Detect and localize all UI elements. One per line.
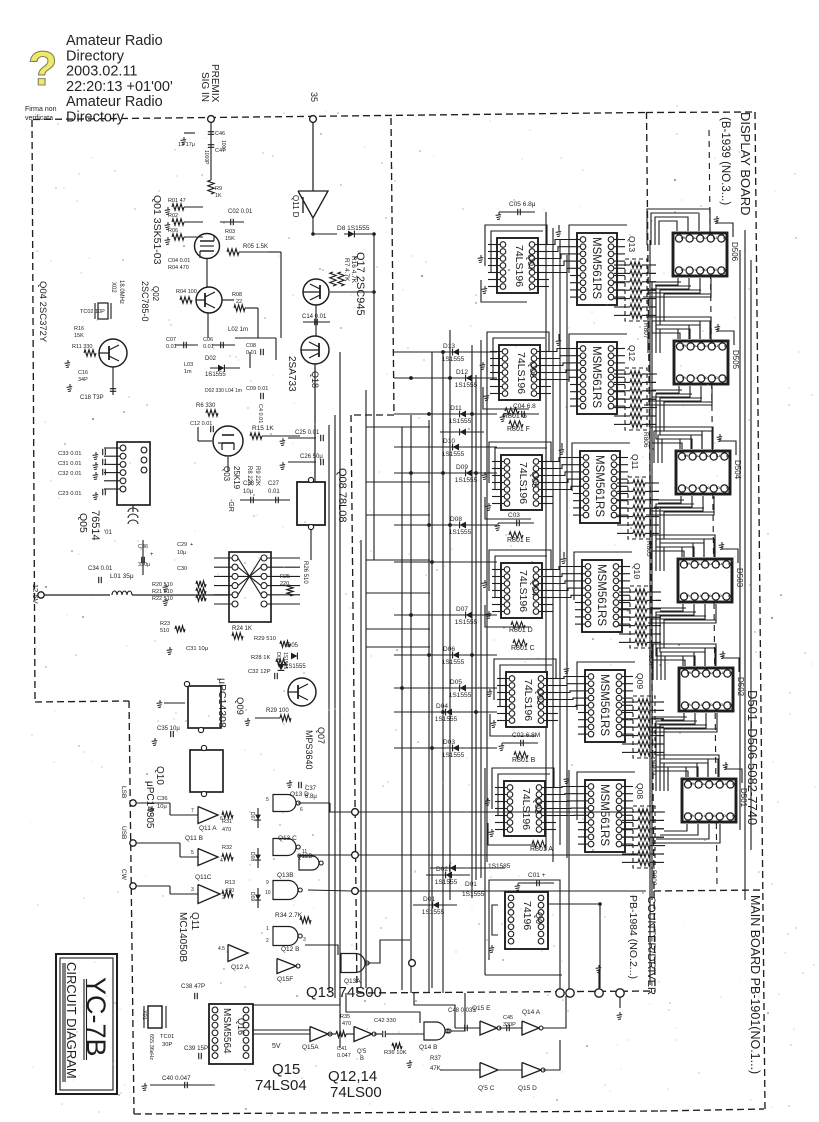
svg-text:7: 7 bbox=[691, 376, 697, 379]
svg-text:7: 7 bbox=[690, 268, 696, 271]
svg-text:Amateur Radio: Amateur Radio bbox=[66, 94, 163, 110]
svg-text:R801 E: R801 E bbox=[507, 537, 531, 544]
svg-text:2: 2 bbox=[717, 671, 723, 674]
svg-text:MSM561RS: MSM561RS bbox=[595, 564, 607, 626]
svg-text:10: 10 bbox=[723, 376, 729, 382]
svg-text:D07: D07 bbox=[249, 812, 255, 821]
svg-text:Q15 D: Q15 D bbox=[518, 1085, 537, 1092]
svg-text:C31 0.01: C31 0.01 bbox=[58, 461, 82, 467]
svg-text:R26 510: R26 510 bbox=[302, 561, 308, 584]
svg-text:verificata: verificata bbox=[25, 115, 53, 122]
svg-text:R23: R23 bbox=[160, 621, 170, 627]
svg-text:1S1555: 1S1555 bbox=[449, 418, 472, 425]
svg-text:510: 510 bbox=[160, 628, 169, 634]
svg-text:R7 4.7K: R7 4.7K bbox=[343, 258, 350, 282]
svg-text:10: 10 bbox=[725, 486, 731, 492]
svg-text:4.5: 4.5 bbox=[218, 946, 225, 952]
svg-text:MC14050B: MC14050B bbox=[177, 912, 188, 962]
svg-text:74LS04: 74LS04 bbox=[255, 1077, 307, 1094]
svg-text:-GR: -GR bbox=[227, 499, 234, 512]
svg-text:Q09: Q09 bbox=[234, 697, 245, 715]
svg-text:C01 +: C01 + bbox=[528, 872, 546, 879]
svg-text:D01: D01 bbox=[423, 896, 435, 903]
svg-text:C28: C28 bbox=[243, 481, 255, 487]
svg-text:22:20:13 +01'00': 22:20:13 +01'00' bbox=[66, 79, 173, 95]
svg-text:Firma non: Firma non bbox=[25, 106, 57, 113]
svg-text:1: 1 bbox=[727, 562, 733, 565]
svg-text:10: 10 bbox=[265, 890, 271, 896]
svg-text:R805: R805 bbox=[645, 541, 652, 557]
svg-text:D07: D07 bbox=[456, 606, 468, 613]
svg-text:0.01: 0.01 bbox=[246, 350, 257, 356]
svg-text:3: 3 bbox=[701, 344, 707, 347]
svg-text:R34 2.7K: R34 2.7K bbox=[275, 912, 303, 919]
svg-text:2: 2 bbox=[716, 562, 722, 565]
svg-text:3: 3 bbox=[303, 937, 306, 943]
svg-text:D06: D06 bbox=[275, 652, 281, 662]
svg-text:4: 4 bbox=[696, 671, 702, 674]
svg-text:1S1555: 1S1555 bbox=[455, 382, 478, 389]
svg-text:Q15A: Q15A bbox=[302, 1044, 319, 1051]
svg-text:R801 A: R801 A bbox=[530, 846, 553, 853]
svg-text:1S1555: 1S1555 bbox=[442, 356, 465, 363]
svg-text:3: 3 bbox=[191, 887, 194, 893]
svg-text:1: 1 bbox=[731, 782, 737, 785]
svg-text:Q08 78L08: Q08 78L08 bbox=[336, 468, 348, 522]
svg-text:74LS196: 74LS196 bbox=[517, 462, 529, 504]
svg-text:R9 22K: R9 22K bbox=[254, 466, 260, 486]
svg-text:R25: R25 bbox=[280, 574, 290, 580]
svg-text:5: 5 bbox=[680, 344, 686, 347]
svg-text:74LS196: 74LS196 bbox=[515, 352, 527, 394]
svg-text:6: 6 bbox=[679, 268, 685, 271]
svg-text:Q15 E: Q15 E bbox=[472, 1005, 491, 1012]
svg-text:470: 470 bbox=[342, 1021, 351, 1027]
svg-text:D06: D06 bbox=[443, 646, 455, 653]
svg-text:Amateur Radio: Amateur Radio bbox=[66, 33, 163, 49]
svg-text:C04 0.01: C04 0.01 bbox=[168, 258, 190, 264]
svg-text:R32: R32 bbox=[222, 845, 232, 851]
svg-text:2: 2 bbox=[266, 938, 269, 944]
svg-text:L02 1m: L02 1m bbox=[228, 327, 248, 333]
svg-text:4: 4 bbox=[220, 858, 223, 864]
svg-text:35: 35 bbox=[309, 92, 319, 102]
svg-text:R01 47: R01 47 bbox=[168, 198, 186, 204]
svg-text:Q13 74S00: Q13 74S00 bbox=[306, 984, 382, 1001]
svg-text:D08: D08 bbox=[249, 852, 255, 861]
svg-text:9: 9 bbox=[717, 703, 723, 706]
svg-text:R03: R03 bbox=[225, 229, 235, 235]
svg-text:3: 3 bbox=[709, 782, 715, 785]
svg-text:'01: '01 bbox=[104, 530, 112, 536]
svg-text:R15 1K: R15 1K bbox=[252, 425, 274, 432]
svg-text:R802: R802 bbox=[650, 870, 657, 886]
svg-text:9: 9 bbox=[714, 486, 720, 489]
svg-text:1S1555: 1S1555 bbox=[282, 652, 288, 669]
svg-text:22: 22 bbox=[236, 299, 242, 305]
svg-text:Q'5 C: Q'5 C bbox=[478, 1085, 495, 1092]
svg-text:R16 4.7K: R16 4.7K bbox=[350, 256, 357, 284]
svg-text:PB-1984 (NO.2...): PB-1984 (NO.2...) bbox=[627, 895, 639, 979]
svg-text:μPC14308: μPC14308 bbox=[216, 678, 228, 728]
svg-text:10μ: 10μ bbox=[177, 550, 186, 556]
svg-text:8: 8 bbox=[701, 376, 707, 379]
svg-text:1K: 1K bbox=[215, 193, 222, 199]
svg-text:10: 10 bbox=[728, 703, 734, 709]
svg-text:D02: D02 bbox=[205, 356, 217, 362]
svg-text:SIG IN: SIG IN bbox=[199, 72, 210, 102]
svg-text:5: 5 bbox=[685, 671, 691, 674]
svg-text:R04 100: R04 100 bbox=[176, 289, 197, 295]
svg-text:25K19: 25K19 bbox=[232, 466, 241, 490]
svg-text:1S1555: 1S1555 bbox=[205, 372, 226, 378]
svg-text:10: 10 bbox=[727, 594, 733, 600]
svg-text:Q09: Q09 bbox=[635, 673, 645, 689]
svg-text:Q11: Q11 bbox=[630, 454, 640, 470]
svg-text:C40 0.047: C40 0.047 bbox=[162, 1075, 191, 1082]
svg-text:1S1555: 1S1555 bbox=[449, 692, 472, 699]
svg-text:8: 8 bbox=[706, 703, 712, 706]
svg-text:C27: C27 bbox=[268, 481, 280, 487]
svg-text:R13: R13 bbox=[225, 880, 235, 886]
svg-text:6.8μ: 6.8μ bbox=[305, 794, 317, 800]
svg-text:R20 510: R20 510 bbox=[152, 582, 173, 588]
svg-text:X02: X02 bbox=[110, 282, 116, 293]
svg-text:MSM5564: MSM5564 bbox=[221, 1008, 232, 1054]
svg-text:C02 6.8M: C02 6.8M bbox=[512, 732, 540, 739]
svg-text:R22 510: R22 510 bbox=[152, 596, 173, 602]
svg-text:C34 0.01: C34 0.01 bbox=[88, 566, 113, 572]
svg-text:Q06: Q06 bbox=[528, 361, 538, 378]
svg-text:C02 0.01: C02 0.01 bbox=[228, 209, 253, 215]
svg-text:Q05: Q05 bbox=[77, 513, 89, 533]
svg-text:Q11C: Q11C bbox=[195, 874, 212, 881]
svg-text:6: 6 bbox=[685, 703, 691, 706]
svg-text:Directory: Directory bbox=[66, 110, 125, 126]
svg-text:Q01 3SK51-03: Q01 3SK51-03 bbox=[151, 195, 163, 265]
svg-text:C05 6.8μ: C05 6.8μ bbox=[509, 201, 536, 208]
svg-text:5V: 5V bbox=[272, 1043, 281, 1050]
svg-text:D08: D08 bbox=[450, 516, 462, 523]
svg-text:12.5V: 12.5V bbox=[31, 584, 40, 604]
svg-text:R801 C: R801 C bbox=[511, 645, 535, 652]
svg-text:C36: C36 bbox=[157, 796, 168, 802]
svg-text:2: 2 bbox=[712, 344, 718, 347]
svg-text:Q03: Q03 bbox=[222, 466, 231, 482]
svg-text:D10: D10 bbox=[443, 438, 455, 445]
svg-text:Q15F: Q15F bbox=[277, 976, 293, 983]
svg-text:0.047: 0.047 bbox=[337, 1053, 351, 1059]
svg-text:D505: D505 bbox=[731, 350, 740, 370]
svg-text:Q14 A: Q14 A bbox=[522, 1009, 541, 1016]
svg-text:1: 1 bbox=[722, 236, 728, 239]
svg-text:C23 0.01: C23 0.01 bbox=[58, 491, 82, 497]
svg-text:C32 12P: C32 12P bbox=[248, 669, 271, 675]
svg-text:C46: C46 bbox=[215, 131, 225, 137]
svg-text:1S1555: 1S1555 bbox=[442, 752, 465, 759]
svg-text:TC02 10P: TC02 10P bbox=[80, 309, 105, 315]
svg-text:1S1555: 1S1555 bbox=[455, 619, 478, 626]
svg-text:10μ: 10μ bbox=[157, 804, 167, 810]
svg-text:D504: D504 bbox=[733, 460, 742, 480]
svg-text:R29 510: R29 510 bbox=[254, 636, 276, 642]
svg-text:Q14 B: Q14 B bbox=[419, 1044, 437, 1051]
svg-text:2: 2 bbox=[714, 454, 720, 457]
svg-text:1S1555: 1S1555 bbox=[442, 659, 465, 666]
svg-text:4: 4 bbox=[699, 782, 705, 785]
svg-text:Q13: Q13 bbox=[627, 236, 637, 252]
svg-text:Q04 2SC372Y: Q04 2SC372Y bbox=[37, 281, 48, 343]
svg-text:+: + bbox=[150, 552, 154, 558]
svg-text:6: 6 bbox=[688, 814, 694, 817]
svg-text:1: 1 bbox=[728, 671, 734, 674]
svg-text:D04: D04 bbox=[436, 703, 448, 710]
svg-text:D09: D09 bbox=[456, 464, 468, 471]
svg-text:Q11: Q11 bbox=[189, 912, 200, 931]
svg-text:4: 4 bbox=[691, 344, 697, 347]
svg-text:D05: D05 bbox=[287, 643, 299, 649]
svg-text:R06: R06 bbox=[168, 228, 178, 234]
svg-text:C08: C08 bbox=[246, 343, 256, 349]
svg-text:R801 B: R801 B bbox=[512, 757, 536, 764]
svg-text:10μ: 10μ bbox=[243, 489, 254, 495]
svg-text:Q11 B: Q11 B bbox=[185, 835, 203, 842]
svg-text:C07: C07 bbox=[166, 337, 176, 343]
svg-text:74LS196: 74LS196 bbox=[522, 679, 534, 721]
svg-text:C09 0.01: C09 0.01 bbox=[246, 386, 268, 392]
svg-text:2: 2 bbox=[711, 236, 717, 239]
svg-text:2SA733: 2SA733 bbox=[286, 356, 297, 392]
svg-text:C4 0.01: C4 0.01 bbox=[257, 404, 263, 423]
svg-text:34P: 34P bbox=[78, 377, 88, 383]
svg-text:3: 3 bbox=[705, 562, 711, 565]
svg-text:6: 6 bbox=[680, 376, 686, 379]
svg-text:Q05: Q05 bbox=[530, 471, 540, 488]
svg-text:9: 9 bbox=[716, 594, 722, 597]
svg-text:D506: D506 bbox=[730, 242, 739, 262]
svg-text:Q07: Q07 bbox=[316, 727, 326, 744]
svg-text:R24 1K: R24 1K bbox=[232, 626, 252, 632]
svg-text:R29 100: R29 100 bbox=[266, 708, 289, 714]
svg-text:Q03: Q03 bbox=[535, 688, 545, 705]
svg-text:9: 9 bbox=[711, 268, 717, 271]
svg-text:Q12 B: Q12 B bbox=[281, 946, 299, 953]
svg-text:13 17μ: 13 17μ bbox=[178, 142, 195, 148]
svg-text:MSM561RS: MSM561RS bbox=[593, 455, 605, 517]
svg-text:15K: 15K bbox=[225, 236, 235, 242]
svg-text:1000P: 1000P bbox=[203, 150, 209, 165]
svg-text:Directory: Directory bbox=[66, 48, 125, 64]
svg-text:C25 0.01: C25 0.01 bbox=[295, 430, 320, 436]
svg-text:D501–D506 5082-7740: D501–D506 5082-7740 bbox=[745, 690, 760, 825]
svg-text:74LS00: 74LS00 bbox=[330, 1084, 382, 1101]
svg-text:74LS196: 74LS196 bbox=[517, 570, 529, 612]
svg-text:8: 8 bbox=[700, 268, 706, 271]
svg-text:X01: X01 bbox=[141, 1010, 147, 1020]
svg-text:5: 5 bbox=[682, 454, 688, 457]
svg-text:C33 0.01: C33 0.01 bbox=[58, 451, 82, 457]
svg-text:D8 1S1555: D8 1S1555 bbox=[337, 225, 370, 232]
svg-text:1m: 1m bbox=[184, 369, 192, 375]
svg-text:R9: R9 bbox=[215, 186, 222, 192]
svg-text:C04 6.8: C04 6.8 bbox=[513, 403, 536, 410]
svg-text:1S1585: 1S1585 bbox=[488, 863, 511, 870]
svg-text:3: 3 bbox=[700, 236, 706, 239]
svg-text:R04 470: R04 470 bbox=[168, 265, 189, 271]
svg-text:C03: C03 bbox=[508, 512, 520, 519]
svg-text:6: 6 bbox=[300, 807, 303, 813]
svg-text:Q12 A: Q12 A bbox=[231, 964, 250, 971]
svg-text:Q15: Q15 bbox=[272, 1061, 300, 1078]
svg-text:C16: C16 bbox=[78, 370, 88, 376]
svg-text:4: 4 bbox=[690, 236, 696, 239]
svg-text:7: 7 bbox=[696, 703, 702, 706]
svg-text:COUNTER/DRIVER: COUNTER/DRIVER bbox=[645, 896, 657, 995]
svg-text:R36 10K: R36 10K bbox=[384, 1050, 407, 1056]
svg-text:C30: C30 bbox=[177, 566, 187, 572]
svg-text:1S1555: 1S1555 bbox=[462, 891, 485, 898]
svg-text:MPS3640: MPS3640 bbox=[304, 730, 314, 770]
svg-text:Q0: Q0 bbox=[534, 912, 544, 924]
svg-text:74LS196: 74LS196 bbox=[513, 245, 525, 287]
svg-text:1S1555: 1S1555 bbox=[422, 909, 445, 916]
svg-text:4: 4 bbox=[695, 562, 701, 565]
svg-text:1: 1 bbox=[266, 926, 269, 932]
svg-text:D05: D05 bbox=[450, 679, 462, 686]
svg-text:3: 3 bbox=[703, 454, 709, 457]
svg-text:74LS196: 74LS196 bbox=[520, 788, 532, 830]
svg-text:R37: R37 bbox=[430, 1056, 442, 1062]
svg-text:R16: R16 bbox=[74, 326, 84, 332]
svg-text:C12 0.01: C12 0.01 bbox=[190, 421, 212, 427]
svg-text:Q11 A: Q11 A bbox=[199, 825, 217, 832]
svg-text:Q08: Q08 bbox=[635, 783, 645, 799]
svg-text:?: ? bbox=[28, 43, 57, 96]
svg-text:D11: D11 bbox=[450, 405, 462, 412]
svg-text:Q16: Q16 bbox=[236, 1018, 246, 1035]
svg-text:1S1555: 1S1555 bbox=[435, 716, 458, 723]
svg-text:Q07: Q07 bbox=[526, 254, 536, 271]
svg-text:470: 470 bbox=[222, 827, 231, 833]
svg-text:6: 6 bbox=[684, 594, 690, 597]
svg-text:C18 T3P: C18 T3P bbox=[80, 395, 104, 401]
svg-text:2SC785-0: 2SC785-0 bbox=[140, 281, 150, 322]
svg-text:R6 330: R6 330 bbox=[196, 403, 216, 409]
svg-text:R35: R35 bbox=[340, 1014, 350, 1020]
svg-text:Q11 D: Q11 D bbox=[291, 195, 300, 218]
svg-text:0.01: 0.01 bbox=[268, 489, 280, 495]
svg-text:D01: D01 bbox=[465, 881, 477, 888]
svg-text:1: 1 bbox=[725, 454, 731, 457]
svg-text:1S1555: 1S1555 bbox=[435, 879, 458, 886]
svg-text:Q12: Q12 bbox=[627, 345, 637, 361]
svg-text:D03: D03 bbox=[443, 739, 455, 746]
svg-text:D12: D12 bbox=[456, 369, 468, 376]
svg-text:MSM561RS: MSM561RS bbox=[598, 674, 610, 736]
svg-text:6: 6 bbox=[682, 486, 688, 489]
svg-text:C32 0.01: C32 0.01 bbox=[58, 471, 82, 477]
svg-text:MSM561RS: MSM561RS bbox=[590, 346, 602, 408]
svg-text:655.36кHz: 655.36кHz bbox=[148, 1034, 154, 1060]
svg-text:10: 10 bbox=[731, 814, 737, 820]
svg-text:C38 47P: C38 47P bbox=[181, 983, 205, 990]
svg-text:R05 1.5K: R05 1.5K bbox=[243, 244, 268, 250]
svg-text:7: 7 bbox=[693, 486, 699, 489]
svg-text:C35 10μ: C35 10μ bbox=[157, 726, 180, 732]
svg-text:R21 510: R21 510 bbox=[152, 589, 173, 595]
svg-text:C31 10μ: C31 10μ bbox=[186, 646, 208, 652]
svg-text:1S1555: 1S1555 bbox=[455, 477, 478, 484]
svg-text:9: 9 bbox=[712, 376, 718, 379]
svg-text:L03: L03 bbox=[184, 362, 193, 368]
svg-text:R806: R806 bbox=[642, 432, 649, 448]
svg-text:8: 8 bbox=[705, 594, 711, 597]
svg-text:1S1555: 1S1555 bbox=[449, 529, 472, 536]
svg-text:Q'5: Q'5 bbox=[357, 1049, 367, 1055]
svg-text:C06: C06 bbox=[203, 337, 213, 343]
svg-text:R801 F: R801 F bbox=[507, 426, 530, 433]
svg-text:5: 5 bbox=[688, 782, 694, 785]
svg-text:5: 5 bbox=[679, 236, 685, 239]
svg-text:R31: R31 bbox=[222, 819, 232, 825]
svg-text:C39 15P: C39 15P bbox=[184, 1045, 208, 1052]
svg-text:C29: C29 bbox=[177, 542, 187, 548]
svg-text:18.0MHz: 18.0MHz bbox=[118, 280, 124, 304]
svg-text:Q13 C: Q13 C bbox=[278, 835, 297, 842]
svg-text:+: + bbox=[190, 542, 193, 548]
svg-text:C26 50μ: C26 50μ bbox=[300, 454, 323, 460]
svg-text:1: 1 bbox=[723, 344, 729, 347]
svg-text:10: 10 bbox=[722, 268, 728, 274]
svg-text:D13: D13 bbox=[443, 343, 455, 350]
svg-text:Q02: Q02 bbox=[151, 286, 160, 302]
svg-text:76514: 76514 bbox=[89, 510, 101, 541]
svg-text:YC-7B: YC-7B bbox=[81, 977, 111, 1057]
svg-text:2003.02.11: 2003.02.11 bbox=[66, 64, 138, 80]
svg-text:7: 7 bbox=[695, 594, 701, 597]
svg-text:3: 3 bbox=[706, 671, 712, 674]
svg-text:C42 330: C42 330 bbox=[374, 1018, 396, 1024]
svg-text:5: 5 bbox=[191, 850, 194, 856]
svg-text:8: 8 bbox=[709, 814, 715, 817]
svg-text:R08: R08 bbox=[232, 292, 242, 298]
svg-text:C45: C45 bbox=[503, 1015, 513, 1021]
svg-text:R02: R02 bbox=[168, 213, 178, 219]
svg-text:MSM561RS: MSM561RS bbox=[598, 784, 610, 846]
svg-text:7: 7 bbox=[191, 808, 194, 814]
svg-text:5: 5 bbox=[684, 562, 690, 565]
svg-text:CIRCUIT DIAGRAM: CIRCUIT DIAGRAM bbox=[64, 962, 79, 1079]
svg-text:Q13B: Q13B bbox=[277, 872, 294, 879]
svg-text:R28 1K: R28 1K bbox=[251, 655, 270, 661]
svg-text:LSB: LSB bbox=[120, 786, 127, 798]
svg-text:15K: 15K bbox=[74, 333, 84, 339]
svg-text:(B-1939 (NO.3...): (B-1939 (NO.3...) bbox=[719, 117, 731, 205]
svg-text:7: 7 bbox=[699, 814, 705, 817]
svg-text:9: 9 bbox=[266, 880, 269, 886]
svg-text:47K.: 47K. bbox=[430, 1066, 443, 1072]
svg-text:C47: C47 bbox=[215, 148, 225, 154]
svg-text:D02 330 L04 1m: D02 330 L04 1m bbox=[205, 388, 242, 394]
svg-text:D02: D02 bbox=[436, 866, 448, 873]
svg-text:MSM561RS: MSM561RS bbox=[590, 237, 602, 299]
svg-text:C41: C41 bbox=[337, 1046, 347, 1052]
svg-text:1S1555: 1S1555 bbox=[442, 451, 465, 458]
svg-text:9: 9 bbox=[720, 814, 726, 817]
svg-text:Q12,14: Q12,14 bbox=[328, 1068, 377, 1085]
svg-text:74196: 74196 bbox=[521, 901, 533, 930]
svg-text:TC01: TC01 bbox=[160, 1034, 174, 1040]
